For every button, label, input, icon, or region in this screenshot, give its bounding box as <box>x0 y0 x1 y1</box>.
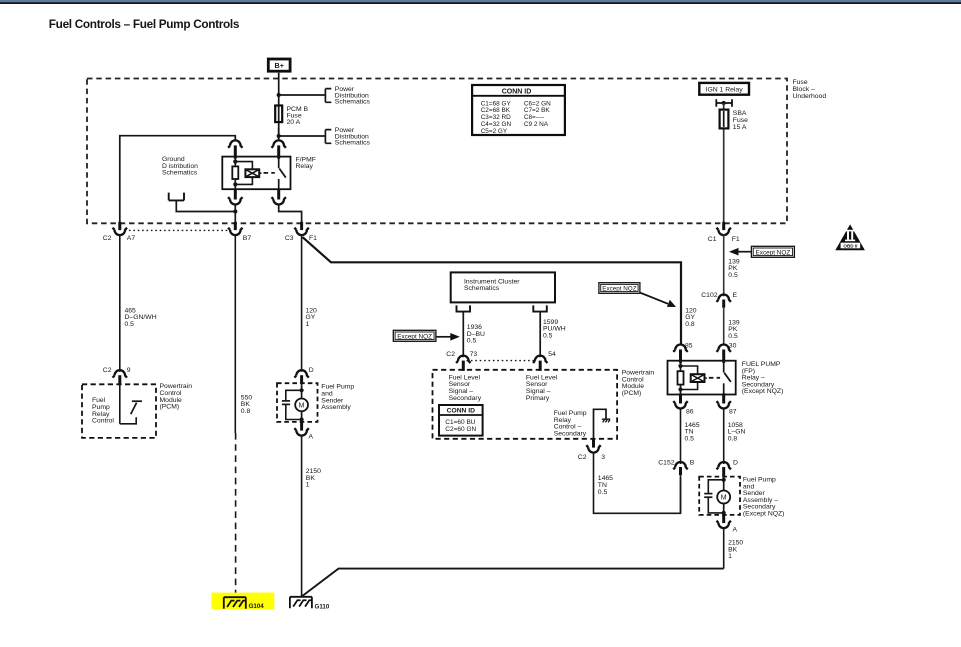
svg-text:G110: G110 <box>315 603 330 610</box>
svg-text:Relay: Relay <box>296 163 314 170</box>
svg-text:0.8: 0.8 <box>728 435 738 442</box>
svg-text:0.5: 0.5 <box>598 489 608 496</box>
svg-text:Secondary: Secondary <box>554 430 587 437</box>
svg-text:Schematics: Schematics <box>335 99 371 106</box>
svg-text:B+: B+ <box>275 61 284 70</box>
svg-text:F1: F1 <box>309 235 317 242</box>
svg-text:C5=2 GY: C5=2 GY <box>481 128 508 135</box>
svg-text:M: M <box>721 495 727 502</box>
svg-text:D: D <box>733 460 738 467</box>
svg-text:C102: C102 <box>701 292 717 299</box>
svg-text:C2: C2 <box>103 235 112 242</box>
svg-text:15 A: 15 A <box>733 124 747 131</box>
svg-text:0.5: 0.5 <box>728 333 738 340</box>
svg-text:B: B <box>690 460 695 467</box>
svg-text:(PCM): (PCM) <box>160 404 180 411</box>
svg-text:C152: C152 <box>658 460 674 467</box>
svg-text:3: 3 <box>601 454 605 461</box>
svg-text:Fuel Controls – Fuel Pump Cont: Fuel Controls – Fuel Pump Controls <box>49 17 240 31</box>
svg-text:(PCM): (PCM) <box>622 390 642 397</box>
svg-text:Schematics: Schematics <box>335 140 371 147</box>
svg-text:M: M <box>299 402 305 409</box>
svg-text:Underhood: Underhood <box>793 93 827 100</box>
svg-text:A: A <box>309 434 314 441</box>
svg-text:0.5: 0.5 <box>467 338 477 345</box>
svg-text:87: 87 <box>729 409 737 416</box>
svg-text:9: 9 <box>127 367 131 374</box>
svg-text:Schematics: Schematics <box>464 285 500 292</box>
svg-text:CONN ID: CONN ID <box>447 408 475 415</box>
svg-text:Primary: Primary <box>526 395 550 402</box>
svg-text:Except NQZ: Except NQZ <box>397 333 432 340</box>
svg-text:54: 54 <box>548 351 556 358</box>
svg-text:C2=60 GN: C2=60 GN <box>445 426 476 433</box>
svg-text:C2: C2 <box>446 351 455 358</box>
svg-text:Except NQZ: Except NQZ <box>755 249 790 256</box>
svg-text:(Except NQZ): (Except NQZ) <box>743 511 785 518</box>
svg-text:0.8: 0.8 <box>685 321 695 328</box>
svg-text:1: 1 <box>728 553 732 560</box>
svg-text:1: 1 <box>306 482 310 489</box>
svg-text:F1: F1 <box>732 236 740 243</box>
svg-text:0.5: 0.5 <box>125 321 135 328</box>
svg-text:86: 86 <box>686 409 694 416</box>
svg-text:1: 1 <box>306 321 310 328</box>
svg-text:A: A <box>733 526 738 533</box>
svg-text:C2: C2 <box>578 454 587 461</box>
svg-text:0.5: 0.5 <box>543 332 553 339</box>
svg-text:IGN 1 Relay: IGN 1 Relay <box>706 87 744 94</box>
svg-text:0.5: 0.5 <box>685 435 695 442</box>
svg-text:Except NQZ: Except NQZ <box>602 286 636 293</box>
svg-text:73: 73 <box>470 351 478 358</box>
svg-text:Secondary: Secondary <box>449 395 482 402</box>
svg-text:C9 2 NA: C9 2 NA <box>524 121 549 128</box>
svg-text:OBD II: OBD II <box>843 244 857 249</box>
svg-text:B7: B7 <box>243 235 252 242</box>
svg-text:(Except NQZ): (Except NQZ) <box>742 388 784 395</box>
svg-text:D: D <box>309 367 314 374</box>
svg-text:C1=60 BU: C1=60 BU <box>445 419 475 426</box>
svg-text:A7: A7 <box>127 235 136 242</box>
svg-text:Schematics: Schematics <box>162 169 198 176</box>
svg-text:C2: C2 <box>103 367 112 374</box>
svg-text:CONN ID: CONN ID <box>502 89 532 96</box>
svg-text:0.5: 0.5 <box>728 272 738 279</box>
svg-text:C3: C3 <box>285 235 294 242</box>
svg-text:E: E <box>733 292 738 299</box>
svg-text:G104: G104 <box>249 603 265 610</box>
svg-text:20 A: 20 A <box>287 119 301 126</box>
svg-text:Control: Control <box>92 418 114 425</box>
svg-text:C1: C1 <box>708 236 717 243</box>
svg-text:Assembly: Assembly <box>321 404 351 411</box>
svg-text:0.8: 0.8 <box>241 408 251 415</box>
